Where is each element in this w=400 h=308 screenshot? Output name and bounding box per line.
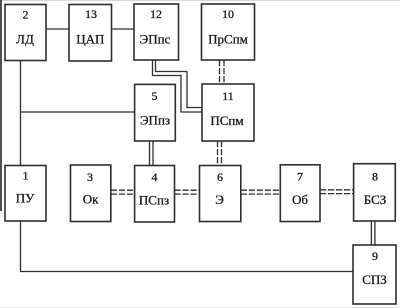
svg-text:ПрСпм: ПрСпм — [208, 32, 248, 47]
svg-text:10: 10 — [222, 7, 234, 21]
svg-text:Ок: Ок — [83, 192, 99, 207]
svg-text:Об: Об — [292, 192, 308, 207]
svg-text:БСЗ: БСЗ — [364, 192, 387, 207]
svg-text:ЛД: ЛД — [16, 31, 34, 46]
svg-text:6: 6 — [217, 170, 223, 184]
svg-text:12: 12 — [150, 7, 162, 21]
svg-text:5: 5 — [152, 89, 158, 103]
svg-text:СПЗ: СПЗ — [362, 272, 387, 287]
svg-text:ЭПпс: ЭПпс — [140, 31, 171, 46]
svg-text:8: 8 — [372, 169, 378, 183]
svg-text:ПСпм: ПСпм — [210, 113, 243, 128]
svg-text:ЭПпз: ЭПпз — [140, 113, 170, 128]
svg-text:1: 1 — [23, 168, 29, 182]
svg-text:7: 7 — [297, 170, 303, 184]
svg-text:3: 3 — [87, 170, 93, 184]
svg-text:4: 4 — [152, 170, 158, 184]
svg-text:13: 13 — [85, 7, 97, 21]
svg-text:9: 9 — [372, 249, 378, 263]
svg-text:11: 11 — [222, 89, 234, 103]
svg-text:2: 2 — [23, 7, 29, 21]
svg-text:ПСпз: ПСпз — [139, 192, 169, 207]
svg-text:Э: Э — [215, 192, 224, 207]
svg-text:ПУ: ПУ — [16, 191, 35, 206]
svg-text:ЦАП: ЦАП — [76, 32, 104, 47]
